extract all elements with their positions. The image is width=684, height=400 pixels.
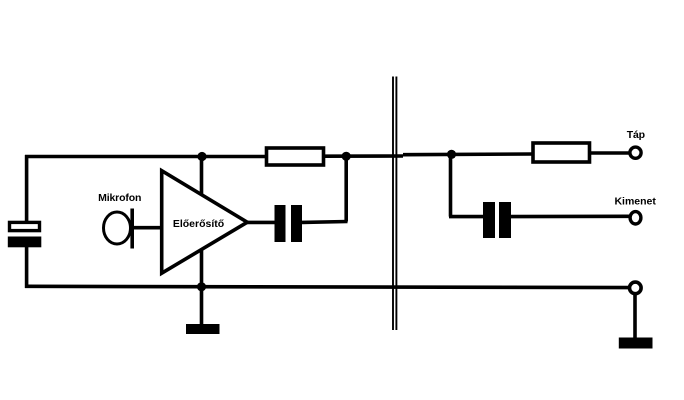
resistor R2 — [533, 143, 590, 162]
wire C1 to vertical riser — [302, 220, 348, 224]
barrier line 2 — [395, 77, 397, 331]
wire mic to amplifier input — [132, 226, 162, 230]
svg-text:Mikrofon: Mikrofon — [98, 192, 141, 204]
node junction dot C right circuit — [447, 150, 456, 159]
capacitor C1 right plate — [291, 205, 302, 242]
wire top rail right of barrier — [403, 152, 532, 156]
svg-text:Kimenet: Kimenet — [614, 196, 656, 208]
wire left rail vertical bottom — [25, 246, 29, 288]
node junction dot D bottom rail — [197, 282, 206, 291]
wire junction drop right of barrier — [449, 155, 453, 217]
capacitor C3 polarized bottom plate — [8, 237, 42, 248]
wire bottom rail — [25, 286, 633, 287]
node junction dot B top rail right — [342, 152, 351, 161]
capacitor C2 left plate — [483, 202, 495, 238]
node junction dot A top rail — [197, 152, 206, 161]
capacitor C2 right plate — [499, 202, 511, 238]
wire top rail left segment — [25, 155, 266, 159]
terminal bottom right — [630, 282, 642, 294]
wire junction to ground G1 — [200, 287, 204, 326]
wire top rail between R1 and barrier — [324, 154, 403, 158]
microphone M1 tangent bar — [130, 209, 134, 249]
svg-text:Előerősítő: Előerősítő — [173, 218, 224, 230]
svg-text:Táp: Táp — [627, 129, 645, 141]
ground G2 — [619, 338, 653, 349]
barrier line 1 — [392, 77, 394, 331]
wire left rail vertical top — [25, 155, 29, 222]
wire amplifier output to C1 — [246, 221, 275, 225]
wire vertical riser C1 to top rail — [344, 156, 348, 222]
wire bottom terminal to ground G2 — [633, 293, 637, 339]
op-amp U1 Eloerosito triangle — [162, 171, 248, 274]
terminal Tap — [630, 147, 641, 158]
resistor R1 — [267, 148, 324, 165]
capacitor C3 polarized top plate — [10, 222, 40, 230]
terminal Kimenet — [630, 212, 641, 224]
wire vertical through amplifier — [200, 155, 204, 287]
ground G1 — [186, 324, 220, 334]
wire junction drop to C2 — [449, 215, 484, 219]
microphone M1 circle — [104, 212, 131, 244]
wire C2 to Kimenet terminal — [510, 215, 630, 219]
capacitor C1 left plate — [275, 205, 286, 242]
wire R2 to Tap terminal — [590, 151, 629, 155]
